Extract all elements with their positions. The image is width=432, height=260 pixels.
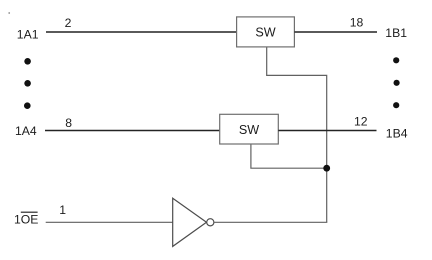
wire SW1 control (from SW1 bottom to vertical bus) <box>267 47 327 223</box>
wire inverter output to bus <box>214 221 327 223</box>
svg-text:1A4: 1A4 <box>15 124 37 138</box>
wire 1B4 output <box>278 130 376 132</box>
svg-text:1B4: 1B4 <box>386 126 408 140</box>
wire 1A4 input <box>45 130 220 132</box>
ellipsis dots right <box>393 57 400 108</box>
svg-text:12: 12 <box>354 114 368 128</box>
svg-text:1: 1 <box>59 203 66 217</box>
svg-text:SW: SW <box>239 123 259 137</box>
wire 1A1 input <box>46 31 237 33</box>
svg-text:8: 8 <box>65 116 72 130</box>
wire 1OE input <box>46 221 173 223</box>
svg-text:2: 2 <box>65 16 72 30</box>
svg-text:1A1: 1A1 <box>17 27 39 41</box>
svg-text:1OE: 1OE <box>14 213 38 227</box>
inverter U1 <box>173 198 214 246</box>
ellipsis dots left <box>24 58 31 109</box>
stray speck (page artifact) <box>8 12 10 14</box>
switch SW (1A4-1B4) <box>220 114 279 144</box>
overline on OE <box>21 211 38 213</box>
svg-text:SW: SW <box>255 26 275 40</box>
svg-text:1B1: 1B1 <box>385 26 407 40</box>
wire SW2 control (from SW2 bottom to junction) <box>251 144 327 168</box>
svg-text:18: 18 <box>350 16 364 30</box>
junction (control bus) <box>323 165 330 172</box>
switch SW (1A1-1B1) <box>237 17 295 47</box>
wire 1B1 output <box>294 31 377 33</box>
